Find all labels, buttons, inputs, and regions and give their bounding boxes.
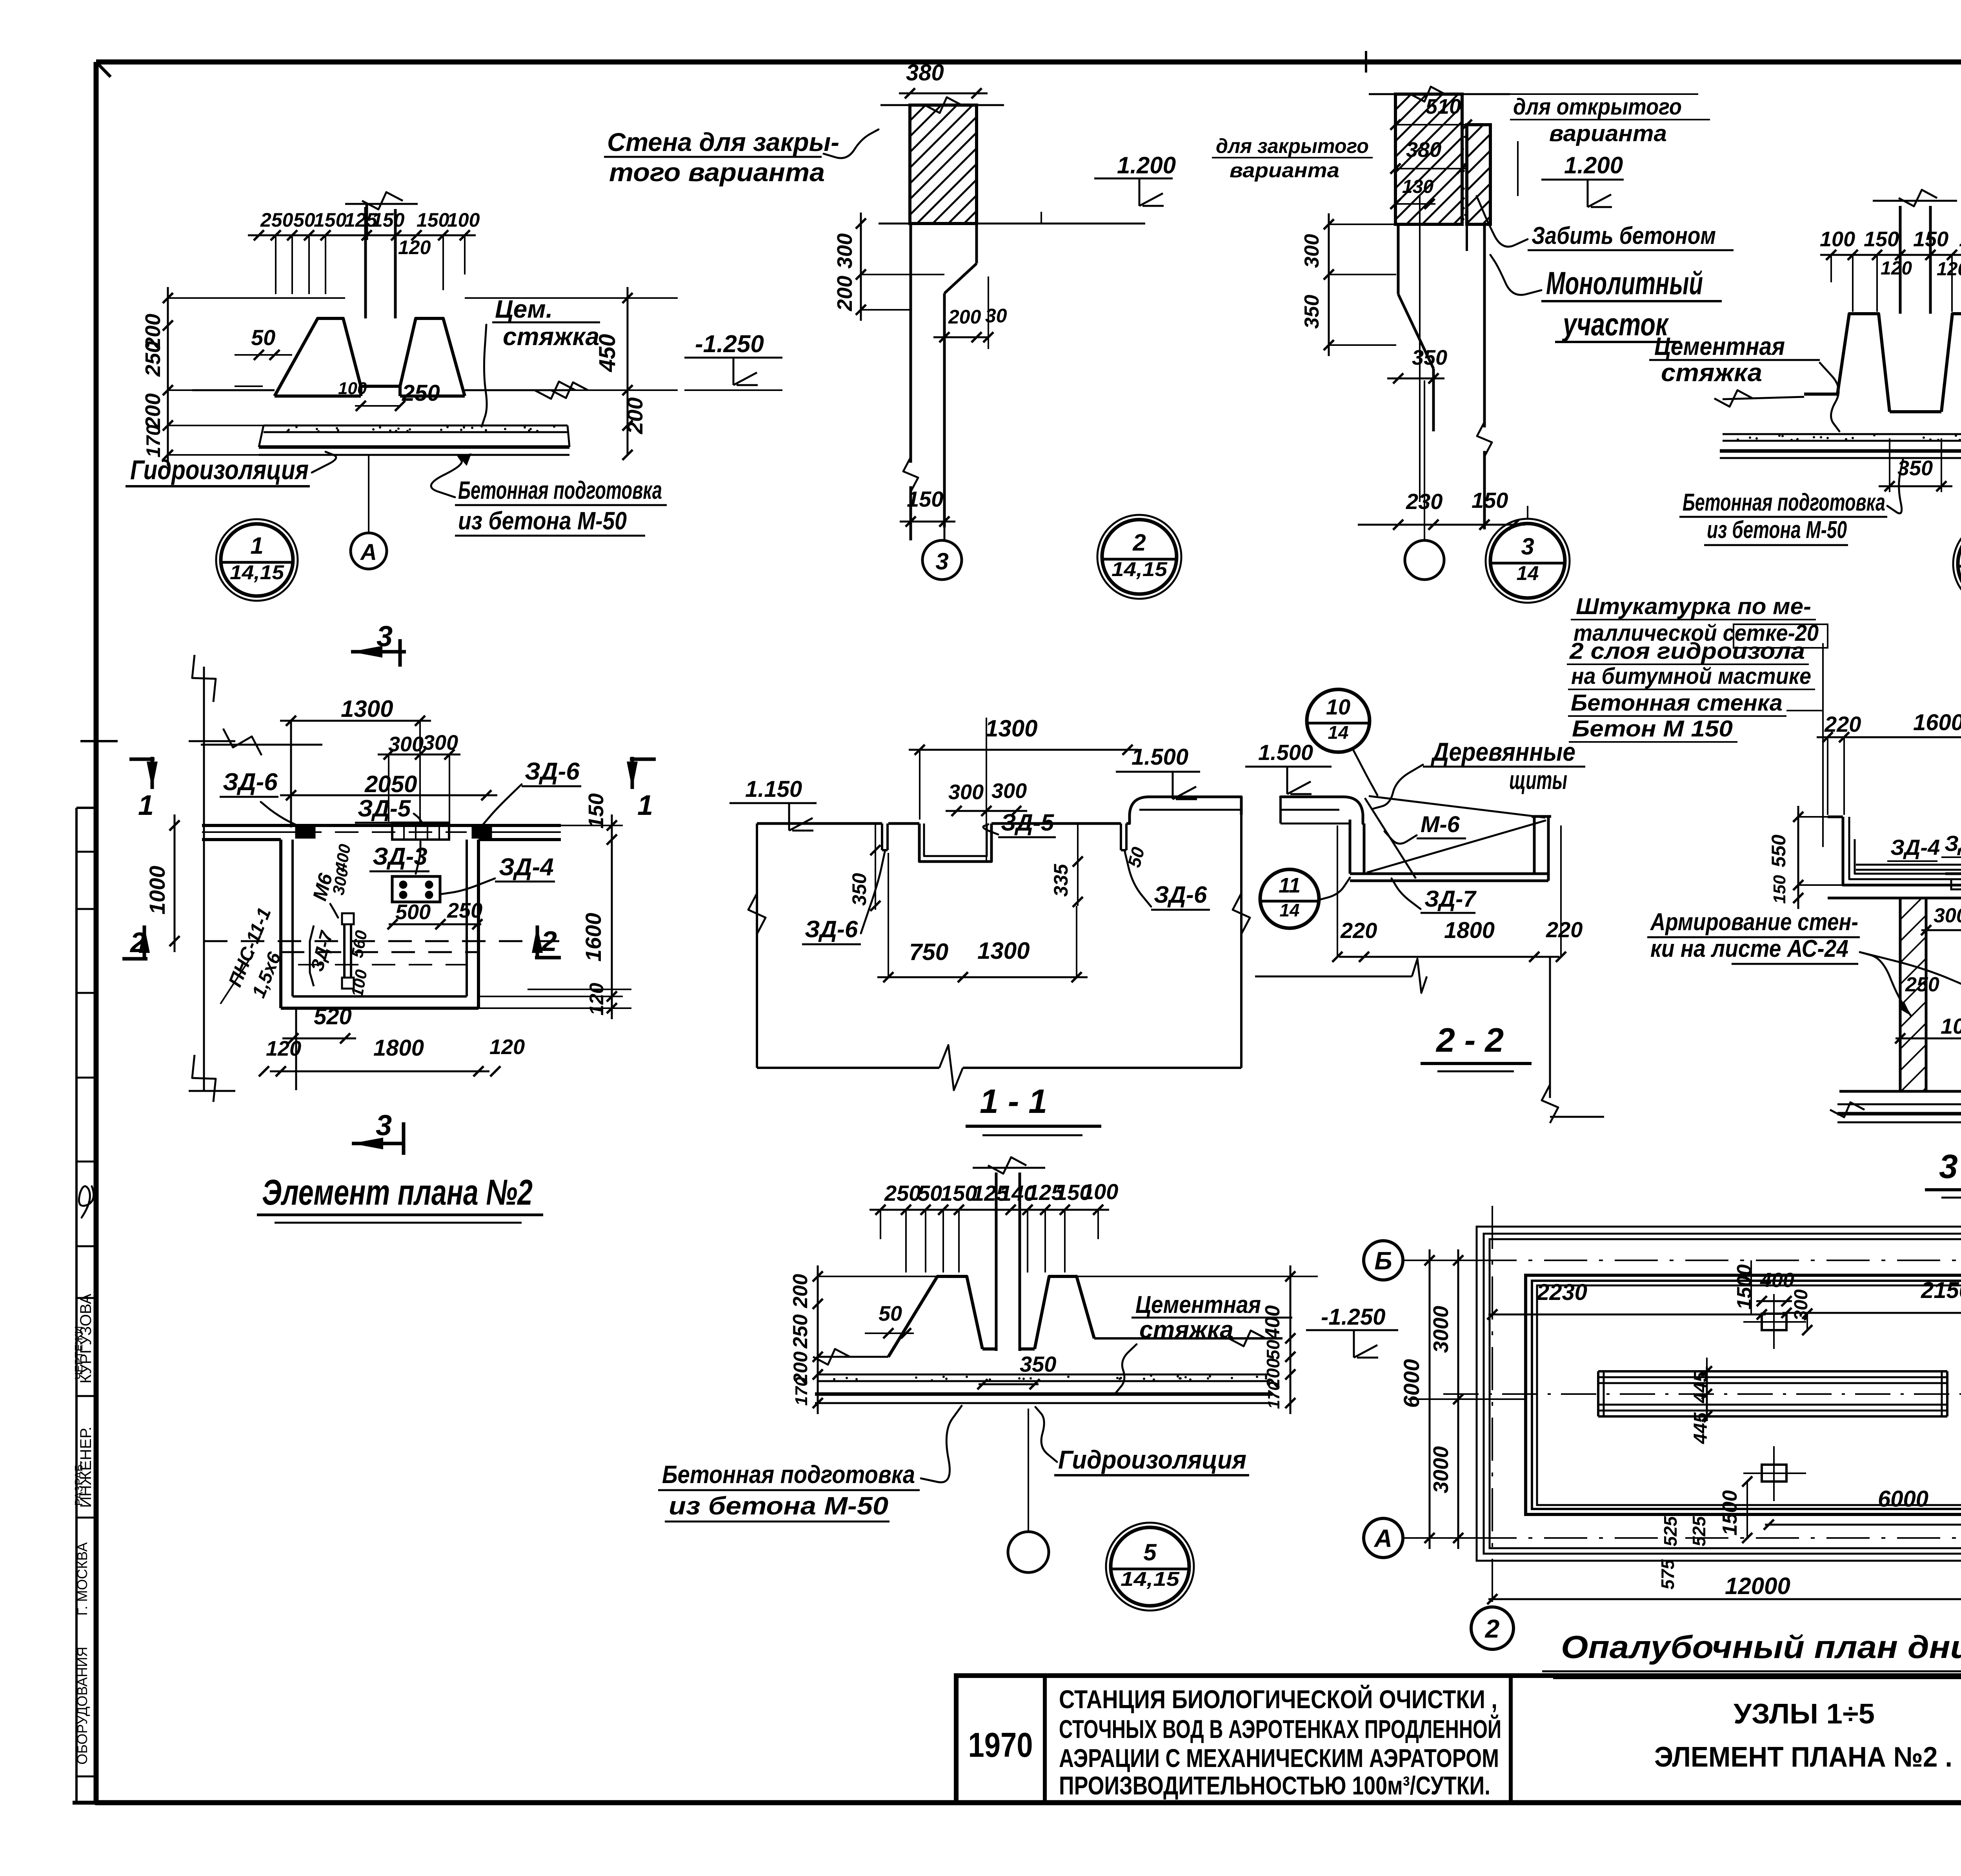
svg-text:Бетон М 150: Бетон М 150 <box>1572 716 1733 742</box>
node-1 floor line right <box>465 389 569 391</box>
svg-text:750: 750 <box>909 939 948 965</box>
plan left wall axis line <box>203 667 205 1091</box>
svg-text:1.500: 1.500 <box>1131 744 1188 770</box>
svg-text:2: 2 <box>1132 529 1146 556</box>
node-1 floor line left <box>192 389 275 391</box>
svg-text:Гидроизоляция: Гидроизоляция <box>1058 1445 1246 1474</box>
svg-text:Забить бетоном: Забить бетоном <box>1532 222 1716 249</box>
formwork plan column forms <box>1762 1314 1786 1330</box>
svg-text:из бетона М-50: из бетона М-50 <box>458 507 627 535</box>
svg-text:150: 150 <box>907 487 943 511</box>
svg-text:510: 510 <box>1426 95 1461 118</box>
svg-text:участок: участок <box>1562 307 1669 342</box>
node-1 left dimension stack 200/250/200/170 <box>167 287 169 466</box>
svg-text:ЗД-4: ЗД-4 <box>499 854 554 881</box>
svg-text:150: 150 <box>417 209 449 231</box>
node-1 foundation body outline <box>275 318 465 396</box>
svg-text:1300: 1300 <box>985 715 1037 742</box>
svg-text:14: 14 <box>1279 900 1299 920</box>
svg-text:220: 220 <box>1340 918 1377 943</box>
svg-text:3: 3 <box>935 548 948 574</box>
svg-text:варианта: варианта <box>1230 159 1339 182</box>
svg-text:120: 120 <box>586 983 608 1016</box>
svg-text:200: 200 <box>622 397 647 434</box>
svg-text:2: 2 <box>129 927 146 958</box>
section 1-1 floor line with channel <box>757 822 882 825</box>
svg-text:того варианта: того варианта <box>609 158 825 187</box>
node-5 floor lines <box>818 1356 888 1358</box>
axis marker circle A <box>351 533 387 569</box>
svg-text:14,15: 14,15 <box>1111 558 1168 580</box>
plan wall face vertical extension <box>290 720 292 827</box>
svg-text:Г. МОСКВА: Г. МОСКВА <box>74 1542 90 1616</box>
title block divider project name <box>1509 1676 1513 1803</box>
svg-text:1600: 1600 <box>581 913 606 962</box>
node-5 left dim stack 200/250/200/170 <box>817 1265 819 1414</box>
svg-text:250: 250 <box>789 1314 812 1349</box>
svg-text:СТОЧНЫХ ВОД В АЭРОТЕНКАХ ПРОДЛ: СТОЧНЫХ ВОД В АЭРОТЕНКАХ ПРОДЛЕННОЙ <box>1059 1714 1501 1743</box>
node marker circle 5/14,15 <box>1111 1527 1189 1606</box>
svg-text:14: 14 <box>1517 562 1539 584</box>
node-4 column stem <box>1899 206 1902 314</box>
svg-text:Цементная: Цементная <box>1654 332 1785 360</box>
svg-text:1: 1 <box>250 533 263 559</box>
node-1 top dimension chain 250/50/150/125/150/150/100 <box>248 234 476 236</box>
left stamp strip boxes <box>75 808 78 1803</box>
svg-text:120: 120 <box>1937 259 1961 280</box>
svg-text:3: 3 <box>1521 533 1534 560</box>
section 1-1 centerline <box>986 718 987 862</box>
section 2-2 wooden braces diagonals <box>1365 798 1416 878</box>
svg-text:1.200: 1.200 <box>1117 152 1176 178</box>
svg-text:3000: 3000 <box>1429 1446 1453 1493</box>
svg-text:ЗД-5: ЗД-5 <box>358 795 411 822</box>
svg-text:варианта: варианта <box>1549 121 1667 146</box>
section 3-3 left dims 550 150 <box>1797 806 1799 909</box>
svg-text:50: 50 <box>879 1302 902 1325</box>
formwork plan centre beam band <box>1598 1370 1947 1372</box>
plan section mark 1 (right) <box>631 757 634 789</box>
svg-text:500: 500 <box>395 900 431 924</box>
svg-text:400: 400 <box>1261 1305 1284 1340</box>
svg-text:150: 150 <box>1864 227 1899 251</box>
node-3 left dims 300 350 <box>1328 213 1330 356</box>
section 3-3 slab under foundation <box>1837 1103 1961 1105</box>
plan section mark 3 (bottom) <box>352 1142 405 1145</box>
svg-text:ЗД-6: ЗД-6 <box>223 769 278 796</box>
svg-text:10: 10 <box>1326 694 1350 719</box>
svg-text:525: 525 <box>1689 1516 1709 1546</box>
svg-text:100: 100 <box>338 379 367 398</box>
svg-text:2150: 2150 <box>1921 1278 1961 1303</box>
svg-text:450: 450 <box>595 334 620 373</box>
svg-text:3: 3 <box>377 620 393 653</box>
formwork plan outer board rectangles <box>1477 1227 1961 1561</box>
svg-text:СТАНЦИЯ БИОЛОГИЧЕСКОЙ ОЧИСТКИ: СТАНЦИЯ БИОЛОГИЧЕСКОЙ ОЧИСТКИ , <box>1059 1684 1497 1714</box>
svg-text:2: 2 <box>1484 1614 1500 1643</box>
plan left dim 1000 <box>174 814 176 952</box>
axis A dash-dot line and circle <box>1403 1537 1961 1539</box>
svg-text:А: А <box>360 540 377 565</box>
svg-text:150: 150 <box>1770 875 1789 904</box>
svg-text:350: 350 <box>848 873 870 906</box>
svg-text:300: 300 <box>991 779 1027 803</box>
svg-text:для открытого: для открытого <box>1513 94 1682 120</box>
svg-text:из бетона М-50: из бетона М-50 <box>1707 516 1847 544</box>
svg-text:170: 170 <box>792 1377 811 1406</box>
svg-text:УЗЛЫ 1÷5: УЗЛЫ 1÷5 <box>1734 1698 1875 1730</box>
svg-text:12000: 12000 <box>1725 1573 1790 1599</box>
node-2 hatched brick wall <box>910 105 977 224</box>
svg-text:300: 300 <box>948 780 984 804</box>
svg-text:стяжка: стяжка <box>1661 358 1762 387</box>
svg-text:ЗД-5: ЗД-5 <box>1001 809 1055 836</box>
section 2-2 left curb ZD-5 mirrored <box>1281 797 1363 823</box>
svg-text:ЗД-4: ЗД-4 <box>1890 835 1940 860</box>
plan right dims 150 1600 120 <box>611 814 613 1019</box>
svg-text:ки на листе АС-24: ки на листе АС-24 <box>1650 935 1848 962</box>
svg-text:6000: 6000 <box>1878 1486 1928 1512</box>
svg-text:120: 120 <box>489 1035 525 1059</box>
svg-text:ЗД-6: ЗД-6 <box>525 758 580 785</box>
svg-text:250: 250 <box>141 341 165 377</box>
section 3-3 trough outline <box>1843 817 1961 885</box>
svg-text:100: 100 <box>1082 1179 1118 1204</box>
svg-text:14,15: 14,15 <box>230 561 284 584</box>
plan section mark 1 (left) <box>151 757 154 789</box>
svg-text:2050: 2050 <box>364 771 417 797</box>
svg-text:220: 220 <box>1546 917 1583 942</box>
svg-text:1800: 1800 <box>1444 918 1495 943</box>
node-5 top dimension chain 250/50/150/125/140/125/150/100 <box>870 1209 1109 1211</box>
svg-text:Бетонная подготовка: Бетонная подготовка <box>458 476 662 504</box>
frame fold tick top <box>1365 51 1367 73</box>
svg-text:из бетона М-50: из бетона М-50 <box>669 1492 888 1520</box>
svg-text:РАЗРАБ.: РАЗРАБ. <box>73 1461 85 1506</box>
svg-text:ЭЛЕМЕНТ ПЛАНА №2 .: ЭЛЕМЕНТ ПЛАНА №2 . <box>1654 1741 1952 1773</box>
node-3 axis circle empty <box>1405 540 1444 580</box>
section 3-3 ZD-4 liner and ZD-3 plate <box>1856 864 1961 866</box>
svg-text:Бетонная стенка: Бетонная стенка <box>1571 690 1783 716</box>
plan room outline <box>279 840 282 1008</box>
section 1-1 right vertical and break <box>1240 815 1242 1068</box>
svg-text:100: 100 <box>1820 227 1855 251</box>
svg-text:2230: 2230 <box>1536 1280 1587 1305</box>
note leader to section 3-3 <box>1822 643 1824 847</box>
svg-text:200: 200 <box>789 1274 812 1309</box>
svg-text:120: 120 <box>398 236 431 258</box>
section 1-1 right curb ZD-5 <box>1130 797 1241 823</box>
svg-text:Элемент плана №2: Элемент плана №2 <box>262 1172 533 1212</box>
section 2-2 node circle 11/14 <box>1260 869 1319 928</box>
svg-text:1600: 1600 <box>1913 710 1961 735</box>
plan top wall strip <box>202 824 561 827</box>
svg-text:300: 300 <box>1934 904 1961 927</box>
svg-text:520: 520 <box>314 1004 352 1029</box>
plan section mark 3 (top) <box>351 650 406 654</box>
svg-text:1000: 1000 <box>1941 1014 1961 1038</box>
svg-text:200: 200 <box>948 306 981 328</box>
svg-text:1.150: 1.150 <box>745 776 802 802</box>
svg-text:-1.250: -1.250 <box>1321 1304 1385 1330</box>
svg-text:1300: 1300 <box>977 938 1030 964</box>
embedded plates ZD-6 on strip <box>296 827 315 838</box>
section 1-1 left embed ZD-6 <box>881 823 883 850</box>
svg-text:Армирование стен-: Армирование стен- <box>1650 909 1858 936</box>
svg-text:1 - 1: 1 - 1 <box>980 1083 1047 1120</box>
svg-text:2: 2 <box>540 926 557 957</box>
svg-text:1500: 1500 <box>1733 1264 1756 1310</box>
svg-text:150: 150 <box>584 793 608 829</box>
node-1 slab and waterproofing layers <box>504 428 506 430</box>
svg-text:150: 150 <box>1959 227 1961 251</box>
svg-text:3000: 3000 <box>1429 1306 1453 1353</box>
svg-text:Стена для закры-: Стена для закры- <box>607 127 839 156</box>
svg-text:1: 1 <box>138 790 154 821</box>
svg-text:-1.250: -1.250 <box>695 331 764 358</box>
svg-text:Б: Б <box>1374 1247 1392 1275</box>
plan top-left break line <box>201 744 322 746</box>
node marker circle 2/14,15 <box>1102 520 1177 594</box>
svg-text:250: 250 <box>260 209 293 231</box>
frame fold tick top-left <box>96 62 111 77</box>
svg-text:575: 575 <box>1657 1559 1678 1589</box>
section 3-3 floor slab line <box>1828 897 1961 900</box>
plan section mark 2 (right) <box>536 925 539 958</box>
axis 2 dash-dot line and circle <box>1492 1206 1493 1607</box>
section 2-2 right vertical <box>1549 957 1551 1098</box>
svg-text:Монолитный: Монолитный <box>1546 265 1703 301</box>
svg-text:300: 300 <box>833 233 857 269</box>
node-2 top of footing line <box>879 223 1145 225</box>
svg-text:300: 300 <box>1791 1289 1812 1321</box>
node marker circle 4/14,15 <box>1958 525 1961 603</box>
plan section 2-2 trace dashed <box>204 940 561 942</box>
node-5 column stem <box>995 1172 998 1351</box>
svg-text:Бетонная подготовка: Бетонная подготовка <box>662 1460 915 1489</box>
svg-text:200: 200 <box>141 393 165 429</box>
node-1 column stem <box>364 207 367 318</box>
svg-text:350: 350 <box>1301 295 1323 329</box>
svg-text:Деревянные: Деревянные <box>1431 737 1575 766</box>
svg-text:350: 350 <box>1412 346 1447 369</box>
node-1 right dim 450 200 <box>627 287 629 401</box>
svg-text:150: 150 <box>1472 488 1508 513</box>
section 1-1 channel recess <box>919 823 991 862</box>
node-5 axis circle empty <box>1008 1532 1049 1572</box>
svg-text:Цементная: Цементная <box>1135 1291 1261 1318</box>
node-4 top dimension chain 100/150/150/150/100 with 120 120 <box>1820 254 1961 256</box>
svg-text:ЗД-3: ЗД-3 <box>1945 831 1961 856</box>
formwork plan inner wall rectangles <box>1526 1275 1961 1514</box>
node-2 wall below ground <box>910 224 912 463</box>
svg-text:100: 100 <box>447 209 480 231</box>
svg-text:150: 150 <box>372 209 405 231</box>
svg-text:на битумной мастике: на битумной мастике <box>1571 664 1811 689</box>
svg-text:200: 200 <box>833 276 857 311</box>
svg-text:14: 14 <box>1328 722 1349 743</box>
svg-text:445: 445 <box>1690 1371 1711 1403</box>
svg-text:1.500: 1.500 <box>1258 740 1313 765</box>
svg-text:для закрытого: для закрытого <box>1216 135 1369 158</box>
svg-text:5: 5 <box>1143 1539 1157 1565</box>
svg-text:250: 250 <box>447 899 482 922</box>
plan embedded plate ZD-4 with bolts <box>392 876 440 902</box>
svg-text:380: 380 <box>1406 138 1441 162</box>
section 2-2 node circle 10/14 <box>1307 689 1370 752</box>
svg-text:2 - 2: 2 - 2 <box>1435 1022 1504 1059</box>
svg-text:335: 335 <box>1050 863 1072 897</box>
plan left dims 3000 3000 6000 <box>1457 1249 1459 1549</box>
svg-text:стяжка: стяжка <box>503 322 599 351</box>
node-5 foundation body outline <box>888 1276 982 1357</box>
svg-text:1: 1 <box>637 790 653 821</box>
node-3 wall below ground <box>1397 224 1400 294</box>
svg-text:ПРОИЗВОДИТЕЛЬНОСТЬЮ 100м³/СУТК: ПРОИЗВОДИТЕЛЬНОСТЬЮ 100м³/СУТКИ. <box>1059 1771 1490 1800</box>
svg-text:14,15: 14,15 <box>1121 1568 1180 1590</box>
svg-text:А: А <box>1373 1524 1392 1552</box>
svg-text:стяжка: стяжка <box>1139 1316 1233 1343</box>
svg-text:2 слоя гидроизола: 2 слоя гидроизола <box>1569 638 1805 664</box>
left stamp signature <box>79 1186 94 1218</box>
node-5 slab and waterproofing layers <box>966 1376 968 1378</box>
frame fold tick left <box>80 740 118 742</box>
node-4 foundation body outline <box>1837 314 1890 412</box>
svg-text:3: 3 <box>376 1109 392 1142</box>
svg-text:ЧЕРТЕЖИ: ЧЕРТЕЖИ <box>73 1326 85 1380</box>
plan M6 anchor detail <box>343 924 346 978</box>
svg-text:1800: 1800 <box>373 1035 424 1061</box>
node-4 slab and waterproofing layers <box>1955 434 1957 437</box>
svg-text:400: 400 <box>1760 1269 1794 1292</box>
svg-text:50: 50 <box>251 325 275 350</box>
formwork plan beam centreline dash-dot <box>1443 1393 1961 1395</box>
svg-text:350: 350 <box>1020 1352 1056 1376</box>
svg-text:220: 220 <box>1824 712 1861 736</box>
node-5 right dim stack 400/50/200/170 <box>1290 1265 1292 1414</box>
embedded channel ZD-5/ZD-3 zone on strip <box>392 823 449 840</box>
svg-text:250: 250 <box>884 1181 921 1205</box>
plan section mark 2 (left) <box>143 925 146 959</box>
svg-text:1.200: 1.200 <box>1564 152 1623 178</box>
svg-text:Цем.: Цем. <box>495 295 553 323</box>
svg-text:120: 120 <box>1881 258 1912 279</box>
svg-text:1970: 1970 <box>968 1725 1033 1764</box>
svg-text:170: 170 <box>1264 1382 1283 1409</box>
svg-text:Бетонная подготовка: Бетонная подготовка <box>1683 489 1885 516</box>
svg-text:170: 170 <box>142 425 164 458</box>
node marker circle 3/14 <box>1490 524 1565 598</box>
axis B dash-dot line and circle <box>1403 1260 1961 1261</box>
svg-text:М-6: М-6 <box>1421 812 1460 837</box>
svg-text:1500: 1500 <box>1719 1490 1741 1536</box>
svg-text:50: 50 <box>918 1181 942 1205</box>
svg-text:3 - 3: 3 - 3 <box>1939 1148 1961 1185</box>
section 1-1 left vertical and break <box>756 823 758 1068</box>
svg-text:11: 11 <box>1279 874 1301 897</box>
svg-text:ОБОРУДОВАНИЯ: ОБОРУДОВАНИЯ <box>74 1647 90 1765</box>
svg-text:Гидроизоляция: Гидроизоляция <box>130 454 309 485</box>
svg-text:щиты: щиты <box>1509 765 1567 794</box>
node marker circle 1/14,15 <box>221 524 293 596</box>
section 1-1 right embed ZD-6 <box>1120 823 1122 850</box>
node-2 left dims 300 200 <box>860 213 862 321</box>
svg-text:300: 300 <box>1301 234 1323 268</box>
node-3 hatched wall with joint <box>1395 94 1462 224</box>
svg-text:50: 50 <box>293 209 315 231</box>
svg-text:1000: 1000 <box>145 866 169 915</box>
svg-text:525: 525 <box>1660 1516 1681 1546</box>
svg-text:250: 250 <box>1905 973 1939 996</box>
svg-text:150: 150 <box>314 209 347 231</box>
svg-text:Штукатурка по ме-: Штукатурка по ме- <box>1576 594 1811 619</box>
section 2-2 bottom line with break <box>1255 976 1412 978</box>
title block divider year <box>1043 1676 1047 1803</box>
section 1-1 bottom line with break <box>757 1067 939 1069</box>
section 2-2 formwork box <box>1349 820 1352 874</box>
svg-text:ЗД-7: ЗД-7 <box>1424 886 1477 912</box>
svg-text:Опалубочный план днища: Опалубочный план днища <box>1561 1629 1961 1665</box>
svg-text:ЗД-6: ЗД-6 <box>805 916 858 942</box>
title block outline <box>956 1676 1961 1803</box>
section 3-3 left wall hatched <box>1899 898 1902 1091</box>
svg-text:550: 550 <box>1768 834 1790 867</box>
svg-text:130: 130 <box>1402 176 1433 197</box>
svg-text:6000: 6000 <box>1399 1359 1424 1408</box>
section 3-3 foundation at base <box>1839 1090 1961 1093</box>
svg-text:ЗД-6: ЗД-6 <box>1154 882 1207 908</box>
svg-text:300: 300 <box>388 733 424 756</box>
svg-text:АЭРАЦИИ С МЕХАНИЧЕСКИМ АЭРАТОР: АЭРАЦИИ С МЕХАНИЧЕСКИМ АЭРАТОРОМ <box>1059 1743 1499 1772</box>
node-4 floor line left <box>1723 397 1804 399</box>
svg-text:1300: 1300 <box>341 696 393 722</box>
svg-text:50: 50 <box>1263 1340 1283 1360</box>
svg-text:250: 250 <box>402 380 440 406</box>
